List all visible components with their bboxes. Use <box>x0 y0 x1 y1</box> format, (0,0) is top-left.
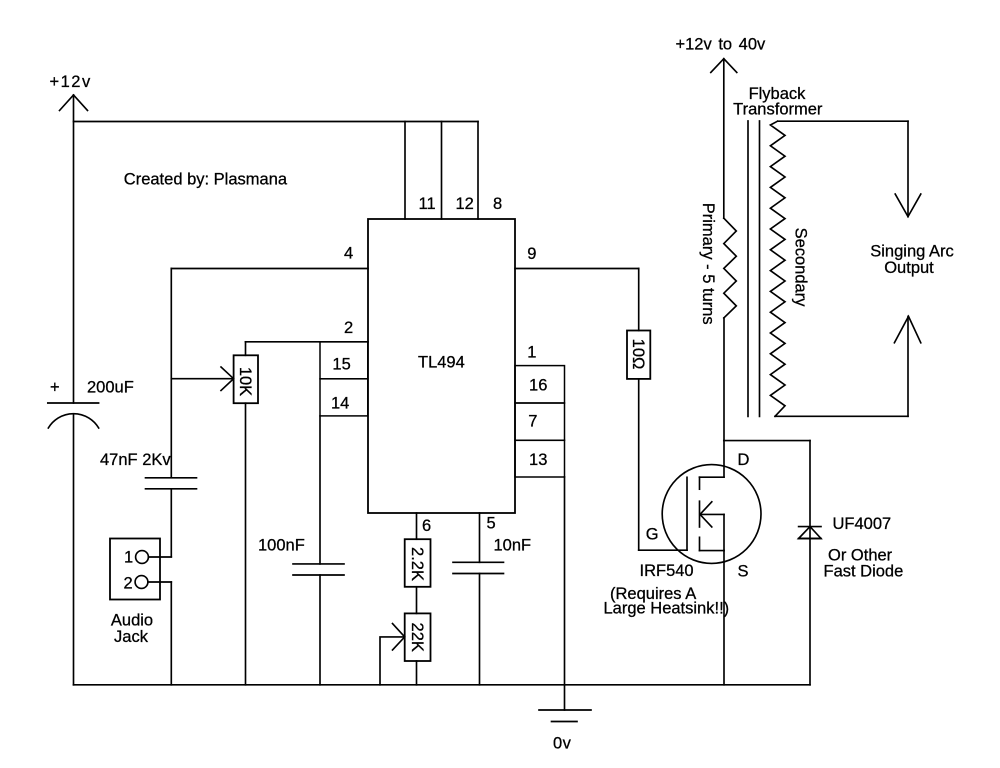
svg-text:11: 11 <box>419 195 436 213</box>
svg-text:G: G <box>646 526 659 544</box>
svg-text:UF4007: UF4007 <box>833 515 892 533</box>
svg-text:47nF 2Kv: 47nF 2Kv <box>100 451 171 469</box>
svg-text:Audio: Audio <box>111 612 153 630</box>
svg-text:22K: 22K <box>408 623 426 652</box>
svg-text:10Ω: 10Ω <box>629 339 647 370</box>
svg-text:100nF: 100nF <box>258 537 305 555</box>
svg-text:14: 14 <box>331 395 349 413</box>
svg-text:10nF: 10nF <box>494 537 532 555</box>
svg-text:0v: 0v <box>553 735 572 753</box>
svg-text:IRF540: IRF540 <box>640 562 694 580</box>
svg-text:Primary - 5 turns: Primary - 5 turns <box>699 203 717 325</box>
svg-text:7: 7 <box>528 413 537 431</box>
svg-text:Jack: Jack <box>114 628 149 646</box>
svg-text:TL494: TL494 <box>418 354 465 372</box>
svg-text:Transformer: Transformer <box>733 100 823 118</box>
svg-text:Secondary: Secondary <box>792 228 810 308</box>
svg-text:12: 12 <box>456 195 474 213</box>
svg-text:5: 5 <box>487 515 496 533</box>
svg-text:1: 1 <box>527 343 536 361</box>
svg-text:S: S <box>738 563 749 581</box>
svg-text:15: 15 <box>332 356 350 374</box>
svg-text:Fast Diode: Fast Diode <box>824 563 904 581</box>
svg-text:6: 6 <box>422 517 431 535</box>
svg-text:2: 2 <box>124 575 133 593</box>
svg-text:8: 8 <box>493 195 502 213</box>
svg-text:Singing Arc: Singing Arc <box>870 243 953 261</box>
svg-text:+: + <box>50 379 60 397</box>
svg-text:13: 13 <box>529 451 547 469</box>
svg-text:+12v to 40v: +12v to 40v <box>676 36 767 54</box>
svg-text:Output: Output <box>884 259 934 277</box>
svg-text:+12v: +12v <box>50 73 92 91</box>
svg-text:Large Heatsink!!): Large Heatsink!!) <box>604 600 730 618</box>
svg-text:D: D <box>738 451 750 469</box>
svg-text:10K: 10K <box>236 367 254 396</box>
svg-text:4: 4 <box>344 245 353 263</box>
svg-text:9: 9 <box>527 245 536 263</box>
svg-text:Created by: Plasmana: Created by: Plasmana <box>124 171 288 189</box>
svg-text:200uF: 200uF <box>87 379 134 397</box>
svg-text:16: 16 <box>529 377 547 395</box>
svg-text:2: 2 <box>344 319 353 337</box>
svg-text:1: 1 <box>124 549 133 567</box>
svg-text:2.2K: 2.2K <box>408 547 426 581</box>
